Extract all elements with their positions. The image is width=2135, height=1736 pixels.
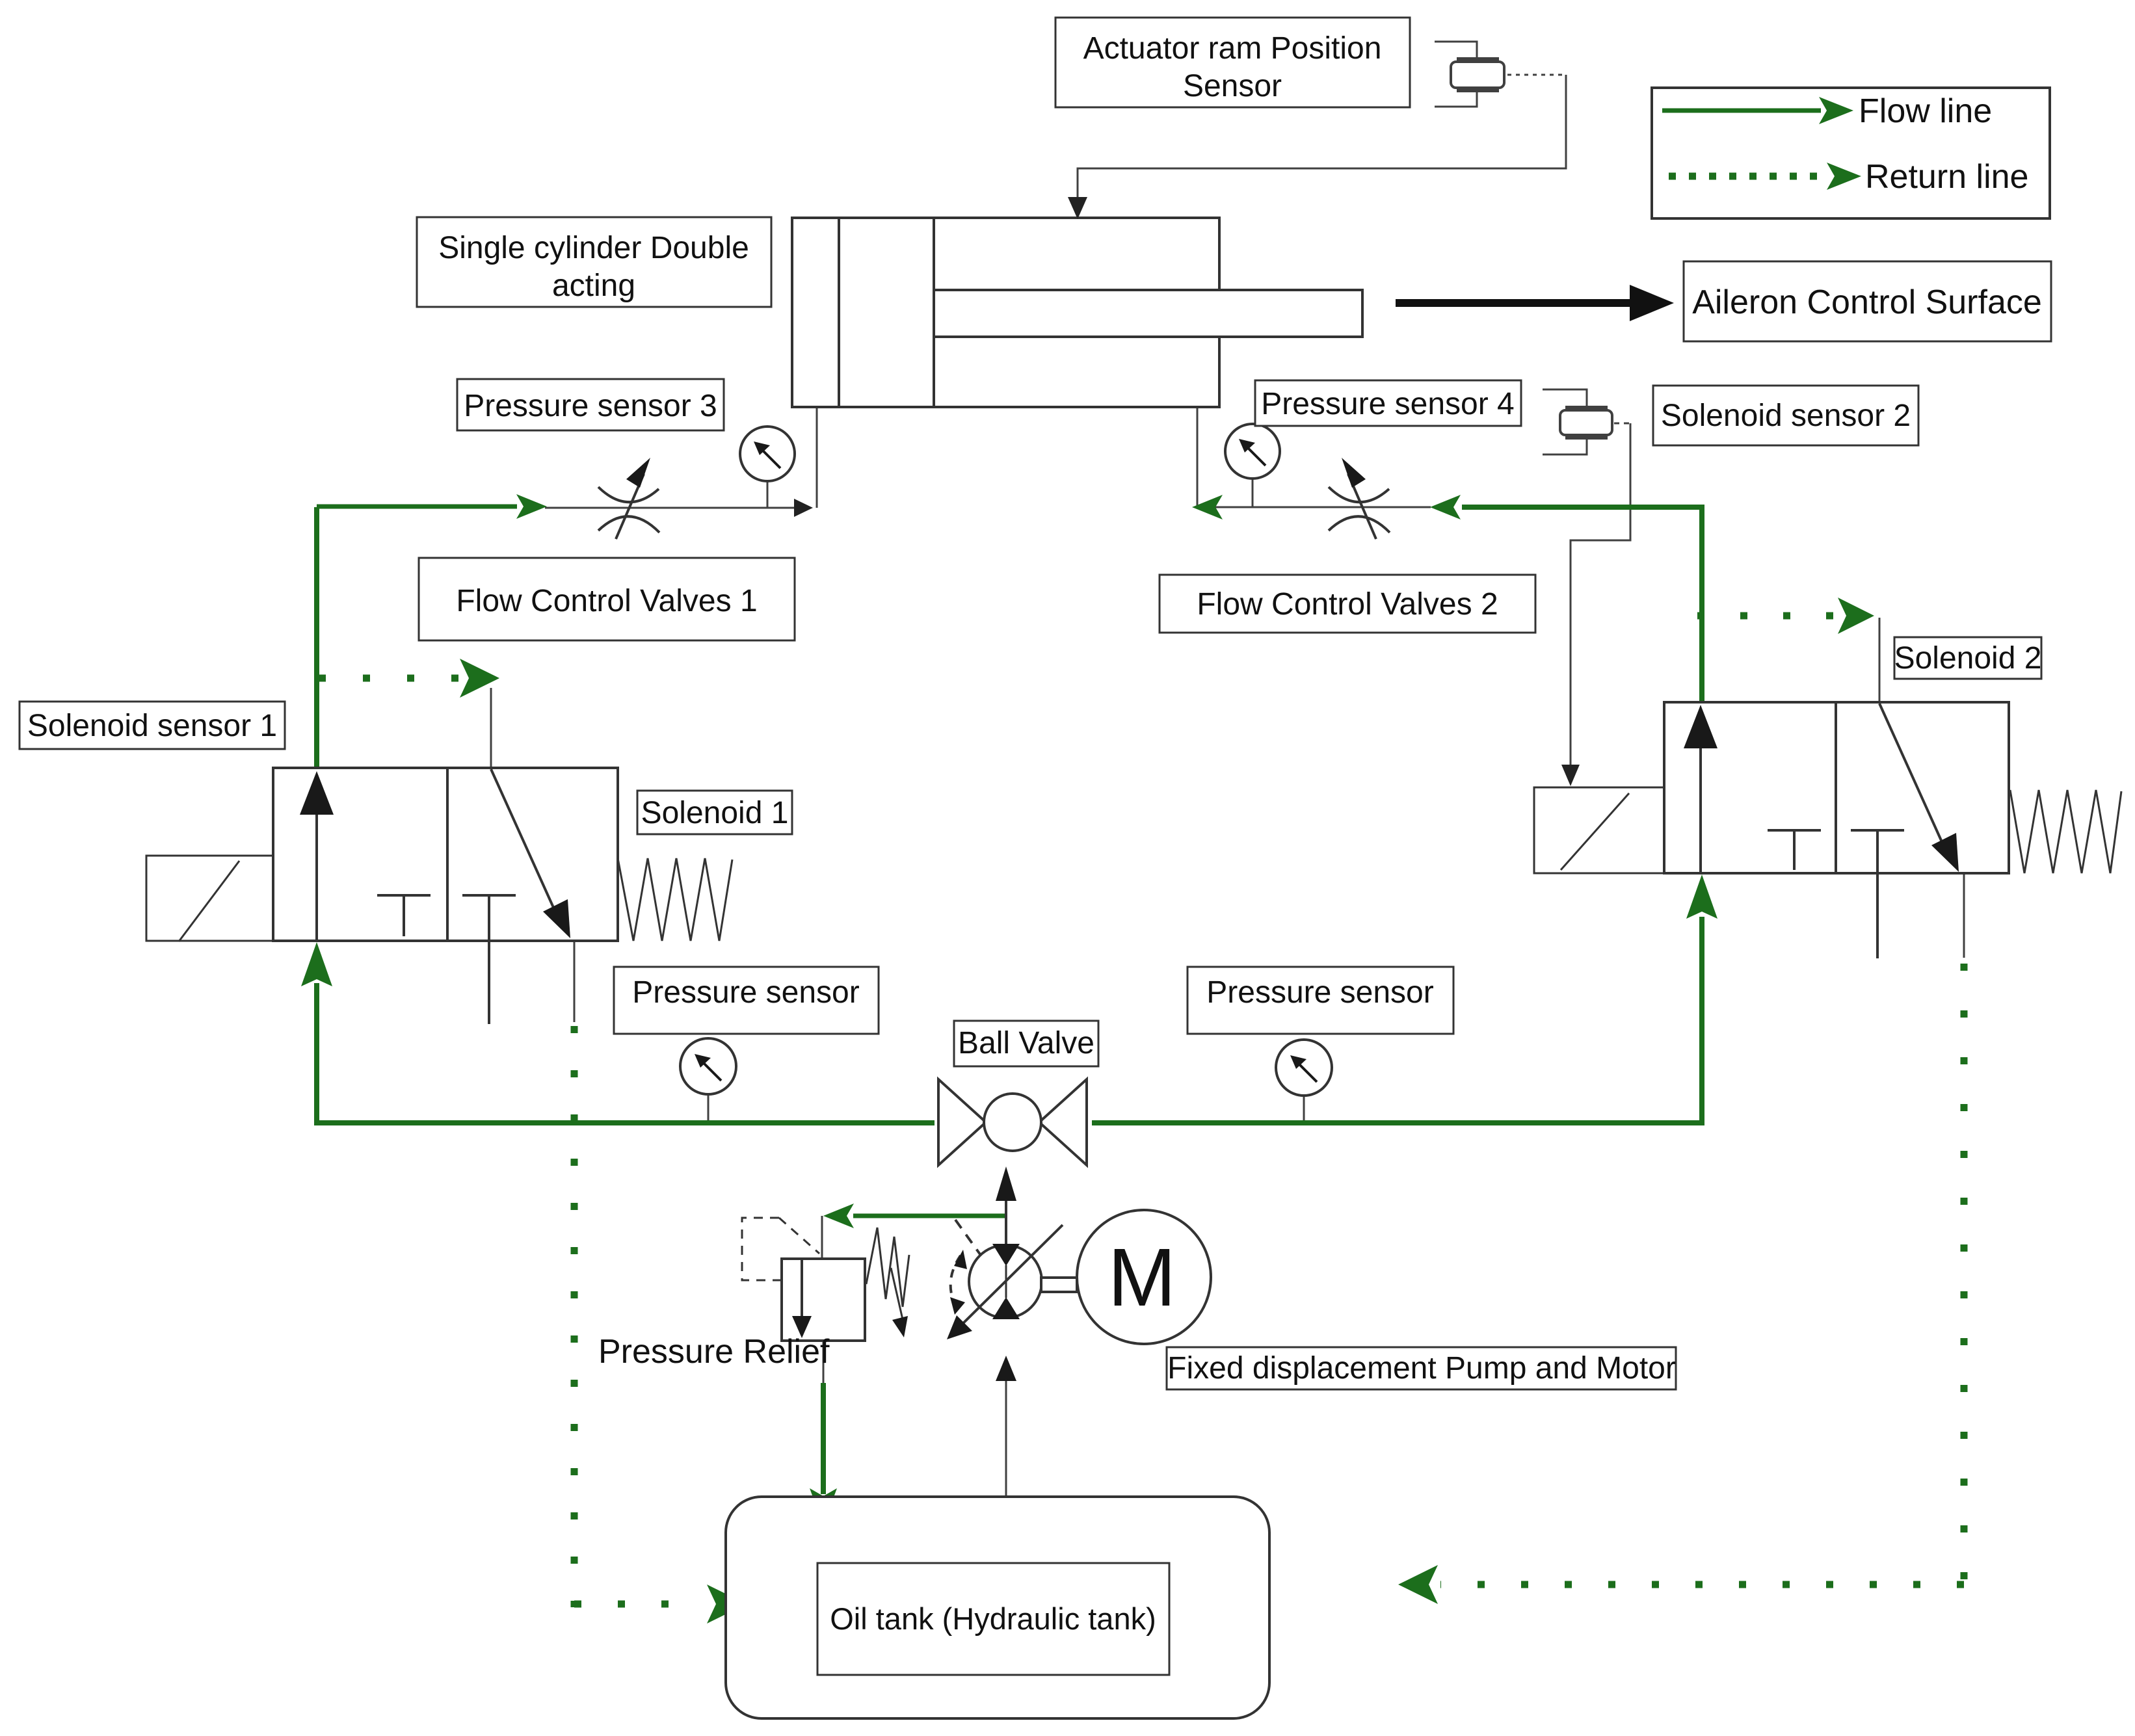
svg-text:Pressure sensor: Pressure sensor xyxy=(1206,975,1433,1010)
svg-text:Single cylinder Double: Single cylinder Double xyxy=(438,231,749,265)
svg-text:Pressure sensor: Pressure sensor xyxy=(632,975,859,1010)
svg-text:acting: acting xyxy=(552,269,635,303)
svg-text:Oil tank (Hydraulic tank): Oil tank (Hydraulic tank) xyxy=(830,1601,1156,1636)
svg-text:Ball Valve: Ball Valve xyxy=(958,1026,1094,1060)
svg-text:Solenoid 2: Solenoid 2 xyxy=(1894,641,2042,676)
svg-text:Pressure sensor 3: Pressure sensor 3 xyxy=(464,389,717,423)
svg-text:Solenoid sensor 2: Solenoid sensor 2 xyxy=(1661,399,1911,433)
svg-text:Flow Control Valves 2: Flow Control Valves 2 xyxy=(1197,587,1498,622)
svg-text:Flow Control Valves 1: Flow Control Valves 1 xyxy=(456,584,757,618)
svg-text:Aileron Control Surface: Aileron Control Surface xyxy=(1692,283,2042,321)
svg-text:Solenoid sensor 1: Solenoid sensor 1 xyxy=(27,709,277,743)
svg-text:Fixed displacement Pump and Mo: Fixed displacement Pump and Motor xyxy=(1167,1351,1676,1386)
svg-text:Return line: Return line xyxy=(1865,158,2028,196)
svg-text:Flow line: Flow line xyxy=(1859,92,1992,130)
svg-text:Actuator ram Position: Actuator ram Position xyxy=(1083,31,1382,66)
svg-text:Pressure sensor 4: Pressure sensor 4 xyxy=(1261,387,1515,421)
svg-text:Pressure Relief: Pressure Relief xyxy=(598,1333,830,1371)
svg-text:Solenoid 1: Solenoid 1 xyxy=(641,796,789,830)
svg-text:M: M xyxy=(1108,1231,1176,1323)
svg-text:Sensor: Sensor xyxy=(1183,69,1282,103)
